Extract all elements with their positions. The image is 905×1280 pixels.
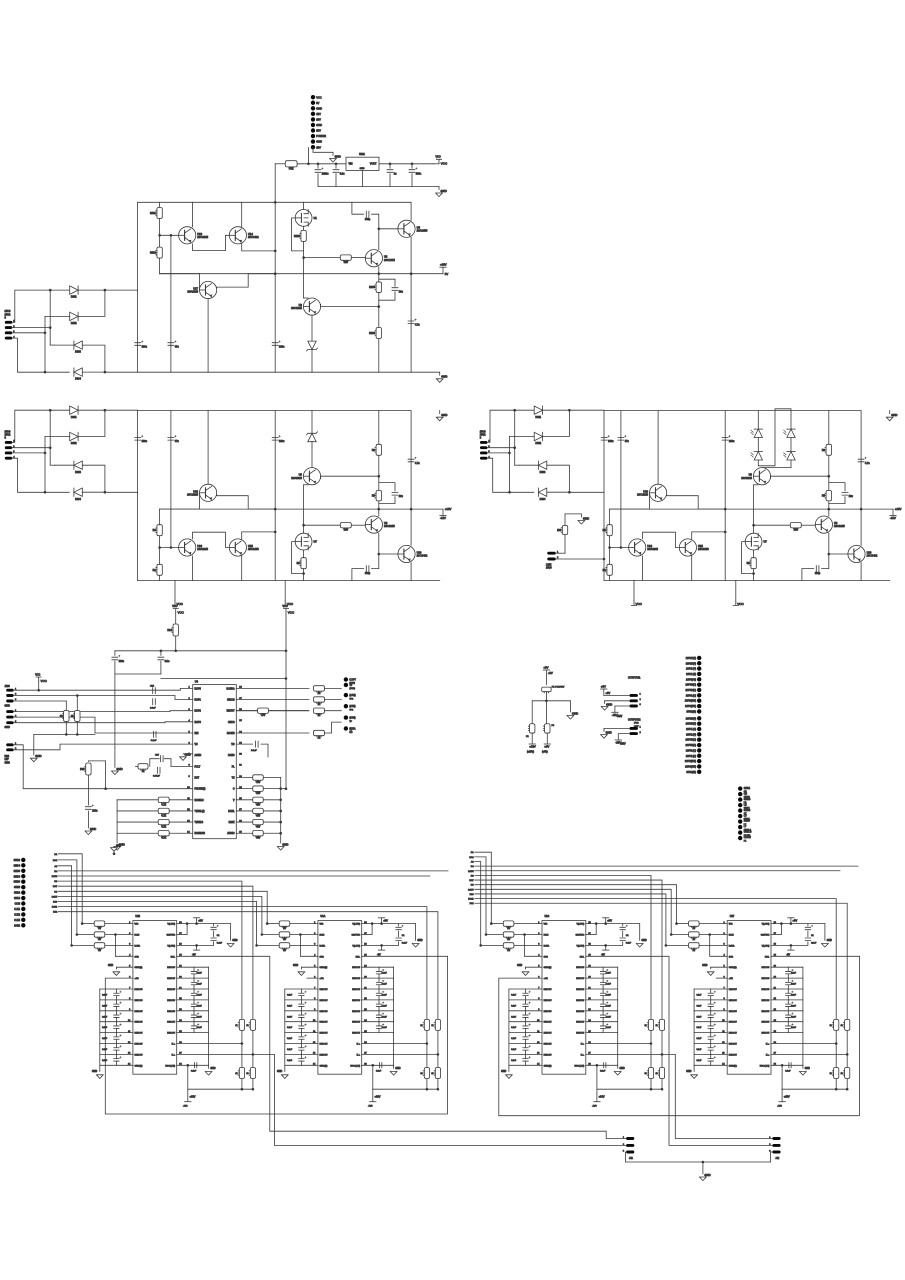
svg-text:DECOU: DECOU [167, 978, 175, 980]
connector J104 pin 1 [480, 441, 487, 444]
wire U4 RACK out [236, 732, 309, 734]
node R21 gnd [65, 733, 68, 736]
svg-text:2SC1815: 2SC1815 [384, 258, 395, 262]
wire R32 right [169, 821, 193, 823]
svg-text:0.1uF: 0.1uF [696, 1005, 702, 1007]
node U10-rail amp3 [860, 508, 863, 511]
svg-text:D4: D4 [471, 866, 475, 868]
wire U5 collector [410, 202, 412, 220]
svg-text:2SP6R(C): 2SP6R(C) [686, 740, 697, 742]
wire U27 capL6 bot [710, 996, 712, 1000]
svg-text:0.1uF: 0.1uF [696, 1027, 702, 1029]
node U18 vlsv b [195, 922, 198, 925]
diode D302 [534, 432, 542, 440]
svg-text:U7: U7 [764, 540, 768, 544]
wire U18 K2 row [177, 1053, 253, 1055]
connector J102 pin 1 [5, 321, 12, 324]
wire U27 decou R7 [771, 999, 803, 1001]
svg-text:CB: CB [744, 793, 748, 795]
svg-text:GND: GND [185, 753, 191, 757]
svg-text:1k: 1k [841, 1073, 843, 1075]
wire U24 right cap bus [617, 967, 619, 1065]
wire C209 to rail [352, 569, 364, 581]
resistor R33 [158, 831, 169, 836]
svg-text:L7: L7 [744, 826, 747, 828]
wire R311 top [564, 514, 566, 526]
wire D202 output join [78, 410, 105, 436]
wire U4 low out 3 [236, 810, 252, 812]
capacitor U18 CL8 [114, 1015, 119, 1017]
wire U24 capR4 bot [602, 974, 604, 978]
connector J109 pin 6 [344, 726, 348, 730]
capacitor U27 C1 [805, 927, 810, 929]
wire U27 NGO row [771, 1064, 803, 1066]
svg-text:DECOU: DECOU [167, 967, 175, 969]
wire C104 bottom lead [411, 174, 413, 187]
wire U27 capR6 top [787, 989, 789, 993]
capacitor U18 CL11 [114, 1048, 119, 1050]
svg-text:GND8: GND8 [744, 810, 751, 812]
svg-text:0.01uF: 0.01uF [153, 775, 160, 777]
wire U27 cap pair mid [807, 931, 809, 937]
node R51 bus [279, 787, 282, 790]
connector J109 pin 2 [344, 683, 348, 687]
svg-text:ROP1: ROP1 [195, 700, 202, 702]
svg-text:0.1uF: 0.1uF [791, 994, 797, 996]
wire amp3 gnd stem [889, 411, 891, 414]
wire RC loop bottom [379, 292, 395, 300]
svg-text:A3: A3 [471, 860, 474, 863]
svg-text:GND: GND [116, 767, 122, 771]
svg-text:VCC: VCC [441, 161, 448, 165]
wire amp2 top rail [138, 410, 412, 412]
connector J114 pin 3 [738, 797, 742, 801]
wire U1A capR6 top [378, 989, 380, 993]
svg-text:DECOU: DECOU [135, 1022, 143, 1024]
svg-text:GND: GND [5, 705, 11, 708]
svg-text:0.1uF: 0.1uF [382, 994, 388, 996]
FET U1 [295, 210, 312, 227]
svg-text:GND: GND [572, 711, 578, 715]
wire U17 emitter to rail [217, 274, 276, 289]
fuse F2 [530, 724, 535, 733]
wire J104 pin4 to bridge bottom [487, 458, 533, 492]
capacitor U1A CL9 [299, 1026, 304, 1028]
ground power supply GND [436, 193, 443, 197]
svg-text:NGO(-LV): NGO(-LV) [165, 1065, 175, 1067]
wire J103 pin3 to bridge [12, 452, 45, 454]
wire U1A capR4 bot [378, 974, 380, 978]
wire U27 capL10 top [710, 1033, 712, 1037]
svg-text:OUTPUT11: OUTPUT11 [628, 677, 641, 680]
wire U10 emitter [410, 411, 412, 546]
wire U24 decou R5 [586, 977, 618, 979]
node U27 rail1 [835, 1088, 838, 1091]
svg-text:15V0: 15V0 [546, 567, 552, 570]
wire U7 to node [303, 525, 305, 533]
svg-text:2SA1015: 2SA1015 [197, 547, 208, 551]
wire bridge+ to amp J104 [569, 409, 604, 411]
connector J113 pin 11 [697, 770, 701, 774]
wire U24 NGO row [586, 1064, 618, 1066]
svg-text:GND: GND [395, 1068, 400, 1070]
node U15-rail amp2 [274, 531, 277, 534]
wire U27 capL10 bot [710, 1039, 712, 1043]
wire U18 capR8 top [193, 1011, 195, 1015]
wire U24 +6R route [499, 956, 860, 1115]
wire bus L6 [58, 886, 253, 1089]
svg-text:0.1uF: 0.1uF [606, 994, 612, 996]
wire U24 +5V stem [605, 918, 607, 924]
svg-text:DAND: DAND [228, 754, 235, 757]
capacitor C102 [333, 170, 339, 173]
wire bridge bus A J102 [49, 290, 51, 345]
capacitor U24 CL6 [523, 993, 528, 995]
svg-text:VCC: VCC [283, 605, 288, 608]
power -15V tap amp2 [440, 515, 446, 517]
wire amp3 +B rail [724, 411, 726, 581]
wire U24 left cap bus [508, 989, 510, 1072]
node J105-rail [603, 558, 606, 561]
svg-text:DECOU: DECOU [135, 1033, 143, 1035]
wire FIL row [171, 765, 193, 767]
wire bus L3 [58, 870, 448, 872]
svg-text:HOL: HOL [171, 956, 176, 958]
wire U18 capL11 top [115, 1044, 117, 1048]
wire J115 pin3 down [624, 1152, 627, 1162]
node U17-rail [274, 272, 277, 275]
wire input stub blk185 row0 [267, 923, 279, 925]
svg-text:GND(A): GND(A) [135, 966, 143, 969]
connector J110 pin 3 [630, 705, 638, 708]
wire U24 +15V stub [596, 1089, 598, 1102]
wire U27 pin17 link [780, 924, 782, 935]
wire U24 decou L12 [509, 1053, 542, 1055]
connector J114 pin 10 [738, 836, 742, 840]
ground U18 analog [113, 972, 120, 976]
svg-text:100u: 100u [119, 660, 125, 663]
wire U3 base right [321, 304, 379, 306]
power VCC stub2 amp3 [733, 601, 738, 606]
connector J117 pin 13 [21, 923, 25, 927]
svg-text:47u: 47u [175, 345, 180, 348]
wire bus L7 [58, 891, 267, 923]
wire VD row [236, 743, 252, 745]
node U27 stb tap [708, 933, 711, 936]
wire U27 decou L9 [694, 1021, 727, 1023]
LED LD2 [751, 452, 763, 460]
wire U27 capR5 bot [787, 985, 789, 989]
wire U08 collector [207, 411, 209, 485]
wire bus A to D203 stub [50, 464, 54, 466]
wire VCC stub2 amp2 [284, 581, 286, 602]
capacitor U24 CL10 [523, 1037, 528, 1039]
wire regulator gnd lead [362, 170, 364, 186]
wire R301 lead [609, 575, 611, 580]
wire bridge bus B J103 [44, 437, 46, 493]
svg-text:(CH2): (CH2) [349, 688, 355, 690]
node U1A rail2 [437, 1088, 440, 1091]
wire C309 to rail [802, 569, 814, 581]
wire U1A decou L12 [285, 1053, 318, 1055]
resistor U24 RV4 [659, 1068, 664, 1079]
svg-text:0.1uF: 0.1uF [626, 943, 632, 945]
svg-text:DAT5: DAT5 [52, 875, 58, 878]
svg-text:0.1u: 0.1u [165, 660, 170, 663]
svg-text:VD: VD [195, 744, 199, 746]
svg-text:OHO8: OHO8 [228, 722, 235, 724]
capacitor C101 [315, 170, 321, 173]
wire U16 emitter link [193, 532, 230, 547]
fuse F101 [285, 161, 297, 167]
wire bias vert amp2 [170, 509, 172, 547]
wire R304 to base [801, 524, 815, 526]
wire bridge- to amp J104 [569, 491, 604, 493]
wire C102 lead [335, 164, 337, 168]
svg-text:R103: R103 [294, 235, 300, 238]
svg-text:U27: U27 [730, 915, 735, 918]
svg-text:0.1uF: 0.1uF [791, 1005, 797, 1007]
wire J108 pin2 row [14, 744, 193, 750]
power VCC right [283, 609, 288, 614]
svg-text:GND2: GND2 [14, 860, 21, 862]
wire R23 to C21 [87, 775, 89, 805]
wire R23 top link [88, 760, 105, 762]
svg-text:GB/7WC: GB/7WC [351, 935, 360, 937]
svg-text:BEOUT: BEOUT [227, 711, 236, 713]
wire U18 capL8 bot [115, 1018, 117, 1022]
capacitor U1A CR9 [376, 1026, 381, 1028]
resistor U18 R2 22 [94, 932, 105, 937]
connector J108 pin 2 [6, 748, 13, 751]
svg-text:WR: WR [320, 924, 324, 926]
resistor U18 RV4 [250, 1068, 255, 1079]
svg-text:WR: WR [729, 924, 733, 926]
wire J107 pin3 to U4 [14, 721, 193, 724]
node U10 base tap [828, 553, 831, 556]
wire U24 capL9 top [525, 1022, 527, 1026]
wire U27 decou R9 [771, 1021, 803, 1023]
wire U27 capL11 top [710, 1044, 712, 1048]
connector J115 pin 1 [626, 1137, 634, 1140]
wire node to R306 [828, 455, 830, 476]
wire U18 Rin3 to IC [105, 944, 133, 946]
svg-text:-15V: -15V [890, 516, 896, 520]
svg-text:TP3: TP3 [349, 709, 354, 711]
resistor R303 [751, 558, 756, 569]
wire U24 capR9 bot [602, 1029, 604, 1033]
connector J101 pin 2 [311, 101, 315, 105]
svg-text:R105: R105 [369, 286, 375, 289]
wire U27 capL7 top [710, 1000, 712, 1004]
wire U18 GB row [177, 934, 187, 936]
wire U27 decou R10 [771, 1032, 803, 1034]
wire bus R10 [475, 899, 836, 1090]
wire U27 GB row [771, 934, 781, 936]
connector J113 pin 6 [697, 743, 701, 747]
wire U18 capL9 bot [115, 1029, 117, 1033]
wire R204 to base [351, 524, 365, 526]
node bias-U08 amp2 [170, 546, 173, 549]
wire J102 pin3 to bridge [12, 332, 45, 334]
connector J102 pin 4 [5, 337, 12, 340]
node x378-rail amp2 [378, 508, 381, 511]
wire U1 gate loop [292, 218, 304, 251]
svg-text:R3: R3 [297, 562, 301, 565]
svg-text:22: 22 [283, 938, 286, 941]
wire U24 GND(A) [526, 966, 543, 968]
wire 15V tap stem amp3 [892, 509, 894, 515]
connector J101 pin 1 [311, 95, 315, 99]
svg-text:V(L/SV): V(L/SV) [167, 945, 175, 947]
wire R17 right [269, 710, 309, 712]
fuse F3 [545, 724, 550, 733]
wire U24 Rin2 to IC [514, 934, 542, 936]
svg-text:R102: R102 [150, 252, 156, 255]
svg-text:GND: GND [210, 1068, 215, 1070]
wire U1A Rin1 to IC [290, 923, 318, 925]
wire U4 low out 5 [236, 832, 252, 834]
wire bus R7 [475, 885, 677, 924]
wire U24 capL6 top [525, 989, 527, 993]
svg-text:0.1uF: 0.1uF [382, 1027, 388, 1029]
wire U1 drain [303, 202, 305, 209]
node bus A top J103 [49, 409, 52, 412]
wire AC input rail [275, 163, 285, 165]
connector J112 pin 10 [697, 704, 701, 708]
wire U24 K2 ext [662, 1054, 772, 1138]
svg-text:GND(A): GND(A) [320, 966, 328, 969]
wire R303 to rail [753, 569, 755, 581]
node U27 K2 [846, 1053, 849, 1056]
svg-text:15V: 15V [316, 118, 321, 122]
node U24 stb tap [523, 933, 526, 936]
ground block3 input [578, 521, 585, 525]
svg-text:DECOU: DECOU [761, 989, 769, 991]
diode D204 [74, 488, 82, 496]
svg-text:GND: GND [702, 965, 707, 967]
svg-text:VCC: VCC [316, 95, 322, 99]
diode D301 [534, 406, 542, 414]
svg-text:C24: C24 [150, 686, 155, 688]
connector J101 pin 9 [311, 139, 315, 143]
svg-text:2SP1R(F): 2SP1R(F) [686, 718, 696, 720]
wire U08 base path [160, 493, 200, 509]
wire U27 capR9 top [787, 1022, 789, 1026]
wire input stub blk0 row1 [77, 934, 94, 936]
resistor U24 RV3 [648, 1068, 653, 1079]
svg-text:22: 22 [507, 938, 510, 941]
wire U15 emitter to rail [692, 532, 726, 539]
wire +15V rail [160, 273, 443, 275]
node bus B bottom J104 [508, 491, 511, 494]
wire gnd bus stem [33, 734, 35, 755]
wire R32 left [117, 821, 158, 823]
wire U24 -5V stem [605, 945, 607, 950]
resistor R306 [826, 444, 831, 455]
ground amp3 top right [886, 417, 893, 421]
svg-text:4.7k: 4.7k [161, 837, 166, 840]
capacitor C310 [842, 493, 848, 496]
capacitor U27 CR5 [786, 982, 791, 984]
wire U1A decou R4 [362, 966, 394, 968]
wire U1A capL8 top [300, 1011, 302, 1015]
svg-text:F2: F2 [526, 736, 529, 738]
svg-text:TP2: TP2 [349, 698, 354, 700]
svg-text:PHONE(J): PHONE(J) [195, 789, 206, 791]
svg-text:100u: 100u [142, 345, 148, 348]
svg-text:GND: GND [232, 940, 237, 942]
capacitor U24 CR8 [600, 1015, 605, 1017]
transistor U5 2SA1358 [398, 220, 415, 237]
svg-text:1k: 1k [841, 1025, 843, 1027]
wire U24 capL6 bot [525, 996, 527, 1000]
node U18 -5V [195, 944, 198, 947]
svg-text:J4A: J4A [629, 1157, 633, 1160]
wire U18 Rin2 to IC [105, 934, 133, 936]
node input joint blk409.1 row0 [490, 922, 493, 925]
svg-text:DAT5: DAT5 [468, 870, 474, 873]
connector J114 pin 4 [738, 803, 742, 807]
connector J111 pin 1 [630, 727, 638, 730]
svg-text:DATA: DATA [135, 944, 141, 947]
wire bus R4 [475, 870, 840, 872]
resistor R32 [158, 819, 169, 824]
wire D202 input [45, 436, 70, 438]
wire U27 capL8 bot [710, 1018, 712, 1022]
connector J104 pin 3 [480, 451, 487, 454]
wire U18 capL10 bot [115, 1039, 117, 1043]
svg-text:C1: C1 [811, 935, 814, 937]
svg-text:GND: GND [277, 1071, 282, 1073]
wire U16 emitter link [643, 532, 680, 547]
connector J110 pin 1 [630, 694, 638, 697]
wire F3 out [546, 733, 548, 744]
svg-text:GND: GND [116, 845, 121, 847]
wire U1A capL11 bot [300, 1050, 302, 1054]
svg-text:DECOU: DECOU [320, 1000, 328, 1002]
node U24 rail1 [650, 1088, 653, 1091]
wire U9 base right [771, 476, 829, 478]
transistor U6 2SA1015 amp2 [365, 516, 382, 533]
wire VCC stub2 amp3 [735, 581, 737, 602]
svg-text:GND(D): GND(D) [544, 1065, 552, 1067]
svg-text:D201: D201 [71, 416, 77, 419]
connector J117 pin 3 [21, 869, 25, 873]
node U1A ngo [372, 1064, 375, 1067]
svg-text:GND: GND [282, 842, 288, 846]
wire R51 right [263, 788, 280, 790]
diode D102 [70, 312, 78, 320]
svg-text:DECOU: DECOU [576, 978, 584, 980]
svg-text:R101: R101 [150, 212, 156, 215]
svg-text:100: 100 [557, 529, 562, 532]
wire R24 bottom [175, 636, 177, 651]
svg-text:-LV3: -LV3 [368, 1106, 373, 1108]
connector J117 pin 12 [21, 918, 25, 922]
resistor U27 RV3 [834, 1068, 839, 1079]
wire D303 input join [547, 465, 570, 492]
svg-text:GND: GND [583, 516, 589, 520]
node U15-rail amp3 [724, 531, 727, 534]
wire U4 out 2 [236, 699, 309, 701]
wire U1A decou L6 [285, 988, 318, 990]
svg-text:DA7: DA7 [469, 879, 474, 882]
capacitor U18 CR4 [191, 971, 196, 973]
wire RC loop amp3 [829, 497, 845, 504]
resistor R103 [301, 230, 306, 241]
svg-text:0.1uF: 0.1uF [197, 1016, 203, 1018]
